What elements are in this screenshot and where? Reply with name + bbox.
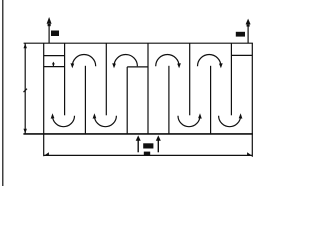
height dim arrow bottom <box>24 129 27 134</box>
center wall <box>147 43 149 134</box>
height dim arrow top <box>24 43 27 48</box>
outlet arrowhead right <box>246 19 251 25</box>
arc arrowhead under B1 <box>51 113 55 118</box>
arc arrowhead under B8 <box>239 113 243 118</box>
hanging baffle B6 <box>189 43 191 115</box>
feed arrow stem left <box>137 140 139 152</box>
width dim arrow left <box>44 152 49 155</box>
arc arrowhead over B5 <box>177 63 181 68</box>
hanging baffle B1 <box>64 43 66 115</box>
page border line <box>2 0 4 186</box>
tank left wall with extension <box>43 43 45 156</box>
center cover plate <box>127 66 148 68</box>
outlet pipe right <box>247 25 249 43</box>
height dimension jog <box>24 89 28 92</box>
left box small arrow <box>53 63 54 67</box>
flow arc over B5 <box>156 54 179 66</box>
hanging baffle B3 <box>105 43 107 115</box>
arc arrowhead under B3 <box>93 113 97 118</box>
outlet pipe left <box>48 24 50 43</box>
tank bottom line <box>23 133 253 135</box>
feed label <box>143 143 153 148</box>
left box upper plate <box>44 55 65 57</box>
dimension label blob <box>144 152 150 155</box>
tank right wall with extension <box>251 43 253 157</box>
arc arrowhead under B6 <box>198 113 202 118</box>
flow arc over B2 <box>72 55 95 67</box>
arc arrowhead over B2 <box>71 63 75 68</box>
width dim arrow right <box>247 152 252 155</box>
standing baffle B4 <box>126 67 128 134</box>
flow arc under B8 <box>219 116 241 127</box>
tank top line <box>24 42 253 44</box>
standing baffle B2 <box>84 66 86 134</box>
outlet label right <box>236 32 245 37</box>
flow arc under B1 <box>53 116 75 127</box>
feed arrowhead right <box>156 135 161 140</box>
width dimension line <box>44 154 253 156</box>
arc arrowhead over B4 <box>112 63 116 68</box>
flow arc under B3 <box>94 116 116 127</box>
outlet label left <box>51 31 59 37</box>
flow arc over B4 <box>114 55 137 67</box>
standing baffle B7 <box>210 66 212 134</box>
height dimension line <box>24 43 26 134</box>
hanging baffle B8 <box>230 43 232 115</box>
arc arrowhead over B7 <box>219 63 223 68</box>
right box plate <box>231 54 252 56</box>
feed arrowhead left <box>136 135 141 140</box>
feed arrow stem right <box>157 140 159 152</box>
outlet arrowhead left <box>47 17 52 24</box>
standing baffle B5 <box>168 66 170 134</box>
flow arc over B7 <box>198 55 221 67</box>
left box lower plate <box>44 66 65 68</box>
flow arc under B6 <box>178 116 200 127</box>
